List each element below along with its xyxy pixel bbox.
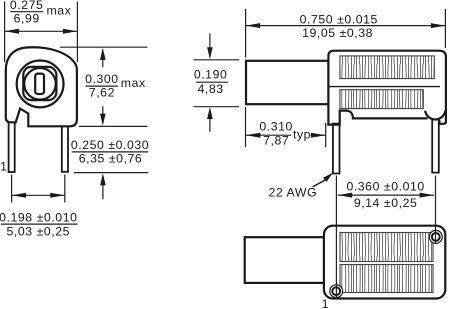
svg-text:0.190: 0.190 xyxy=(194,67,228,81)
svg-text:0.750 ±0.015: 0.750 ±0.015 xyxy=(300,12,378,26)
svg-text:0.250 ±0.030: 0.250 ±0.030 xyxy=(71,138,149,152)
svg-text:6,35 ±0,76: 6,35 ±0,76 xyxy=(79,152,143,166)
svg-text:0.275: 0.275 xyxy=(10,0,44,12)
svg-text:0.310: 0.310 xyxy=(259,120,293,134)
svg-text:7,62: 7,62 xyxy=(89,86,115,100)
svg-text:0.300: 0.300 xyxy=(85,72,119,86)
svg-text:max: max xyxy=(47,4,72,18)
svg-text:22 AWG: 22 AWG xyxy=(268,186,317,200)
svg-text:0.198 ±0.010: 0.198 ±0.010 xyxy=(0,210,77,224)
svg-text:19,05 ±0,38: 19,05 ±0,38 xyxy=(302,26,373,40)
svg-text:1: 1 xyxy=(0,159,7,173)
svg-text:6,99: 6,99 xyxy=(14,11,40,25)
svg-text:1: 1 xyxy=(322,297,329,309)
svg-text:0.360 ±0.010: 0.360 ±0.010 xyxy=(346,179,424,193)
svg-text:5,03 ±0,25: 5,03 ±0,25 xyxy=(7,225,71,239)
svg-text:9,14 ±0,25: 9,14 ±0,25 xyxy=(354,196,418,210)
svg-text:4,83: 4,83 xyxy=(198,82,224,96)
svg-text:7,87: 7,87 xyxy=(263,133,289,147)
svg-text:max: max xyxy=(121,76,146,90)
svg-text:typ: typ xyxy=(293,127,311,141)
